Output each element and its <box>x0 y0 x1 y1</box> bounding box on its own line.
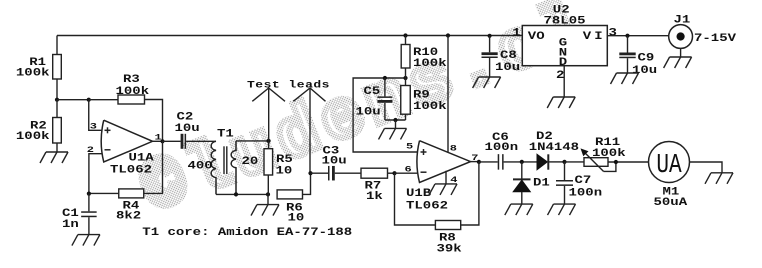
wire R10 top <box>405 36 407 45</box>
svg-text:R9: R9 <box>413 89 430 101</box>
wire R9 bottom <box>405 114 407 120</box>
svg-text:39k: 39k <box>437 243 463 255</box>
wire U2 output rail <box>607 35 669 37</box>
svg-text:U2: U2 <box>553 4 570 16</box>
svg-text:10: 10 <box>276 165 293 177</box>
node U1B pin8 tap <box>446 33 450 37</box>
resistor R2 <box>53 118 62 144</box>
ground J1 <box>664 57 692 68</box>
wire pin2 node to R4 <box>89 192 119 194</box>
diode D1 <box>521 162 523 179</box>
resistor R10 <box>401 45 410 69</box>
svg-text:2: 2 <box>87 145 94 155</box>
svg-text:Test leads: Test leads <box>247 79 330 91</box>
capacitor C6 <box>479 161 498 163</box>
transformer T1 primary <box>211 141 216 194</box>
wire U1A output <box>153 140 163 142</box>
capacitor C9 <box>627 36 629 53</box>
ground C5/R9 <box>395 120 397 128</box>
svg-text:100n: 100n <box>569 187 603 199</box>
wire node A to node B <box>57 99 89 101</box>
svg-text:100k: 100k <box>592 147 626 159</box>
svg-text:C2: C2 <box>177 111 194 123</box>
svg-text:3: 3 <box>90 122 97 132</box>
wire R7 right <box>388 172 395 174</box>
wire secondary top <box>236 140 269 142</box>
resistor R4 <box>119 189 144 198</box>
wire C5/R9 bottom <box>385 119 406 121</box>
svg-text:100n: 100n <box>485 141 519 153</box>
wire R8 loop <box>395 173 436 225</box>
IC U2 78L05 <box>522 26 607 66</box>
svg-text:2: 2 <box>556 69 564 81</box>
svg-text:1k: 1k <box>366 190 383 202</box>
resistor R7 <box>361 168 388 178</box>
svg-text:1: 1 <box>512 27 520 39</box>
wire C7 node to R11 <box>565 161 585 163</box>
meter M1 <box>649 142 690 183</box>
svg-text:100k: 100k <box>16 67 50 79</box>
svg-text:U1B: U1B <box>406 187 432 199</box>
wire pin6 <box>395 172 419 174</box>
transformer T1 secondary <box>231 141 236 195</box>
wire R11 right <box>608 161 649 163</box>
node test lead left <box>267 139 271 143</box>
capacitor C5 <box>384 78 386 96</box>
svg-text:TL062: TL062 <box>406 200 448 212</box>
wire J1 ground <box>680 48 682 57</box>
test lead right <box>309 88 311 173</box>
svg-text:50uA: 50uA <box>654 196 688 208</box>
svg-text:VO: VO <box>528 30 545 42</box>
wire pin8 <box>447 36 449 153</box>
node B pin3 tap <box>87 98 91 102</box>
diode D2 <box>537 154 547 169</box>
ground C1 <box>72 235 100 246</box>
node U1B output <box>477 160 481 164</box>
node secondary bottom <box>234 192 238 196</box>
wire R5 top <box>268 141 270 149</box>
node D1 tap <box>520 160 524 164</box>
svg-text:1n: 1n <box>62 218 79 230</box>
wire pin5 loop <box>353 78 418 152</box>
resistor R9 <box>401 86 411 115</box>
node C5/R9 ground <box>393 118 397 122</box>
svg-text:10u: 10u <box>632 64 657 76</box>
node U1A output <box>160 139 164 143</box>
ground D1 <box>505 204 533 215</box>
svg-text:VI: VI <box>583 30 606 42</box>
op-amp U1A <box>101 120 152 162</box>
node R11 wiper <box>614 160 618 164</box>
wire R2 bottom <box>56 143 58 152</box>
wire R5 bottom <box>267 175 269 194</box>
resistor R3 <box>118 95 145 104</box>
ground U2 <box>547 97 575 108</box>
wire node B to R3 <box>89 99 118 101</box>
svg-text:10u: 10u <box>322 155 347 167</box>
svg-text:10u: 10u <box>495 62 520 74</box>
wire bottom rail <box>216 193 268 195</box>
wire R3 right <box>145 100 163 142</box>
connector J1 <box>669 25 693 49</box>
svg-text:5: 5 <box>406 142 413 152</box>
node C9 tap <box>625 34 629 38</box>
node R10 tap <box>403 33 407 37</box>
svg-text:1N4148: 1N4148 <box>529 141 579 153</box>
wire top supply rail <box>57 35 522 37</box>
ground C8 <box>473 77 501 88</box>
node A divider <box>55 98 59 102</box>
capacitor C7 <box>564 162 566 180</box>
svg-text:D: D <box>559 57 568 69</box>
svg-text:J1: J1 <box>674 14 691 26</box>
wire R1 top <box>56 36 58 55</box>
node C8 tap <box>488 34 492 38</box>
ground C9 <box>611 73 639 84</box>
svg-text:10u: 10u <box>356 106 381 118</box>
capacitor C8 <box>489 36 491 53</box>
node R5 bottom <box>266 192 270 196</box>
wire R9 top <box>405 78 407 86</box>
capacitor C2 <box>163 140 181 142</box>
wire U2 gnd <box>563 66 565 97</box>
wire pin4 ground <box>445 171 447 184</box>
op-amp U1B <box>417 141 471 183</box>
resistor R8 <box>435 221 460 230</box>
resistor R11 pot <box>584 158 608 167</box>
svg-text:100k: 100k <box>413 57 447 69</box>
resistor R6 <box>277 190 302 199</box>
capacitor C3 <box>311 172 329 174</box>
wire pin3 <box>89 100 103 131</box>
svg-text:400: 400 <box>188 160 213 172</box>
svg-text:T1: T1 <box>217 128 234 140</box>
svg-text:3: 3 <box>609 27 617 39</box>
wire U1B output <box>471 161 479 163</box>
svg-text:UA: UA <box>656 151 682 181</box>
wire R10 bottom <box>405 68 407 78</box>
transformer T1 core <box>223 146 225 174</box>
svg-text:100k: 100k <box>116 85 150 97</box>
node R9/R10 <box>403 76 407 80</box>
svg-text:8: 8 <box>450 144 457 154</box>
wire R6 right <box>303 173 311 194</box>
svg-text:T1 core: Amidon EA-77-188: T1 core: Amidon EA-77-188 <box>142 227 352 239</box>
svg-text:10u: 10u <box>175 122 200 134</box>
svg-text:7-15V: 7-15V <box>694 32 737 44</box>
capacitor C1 <box>88 193 90 211</box>
svg-text:6: 6 <box>405 165 412 175</box>
resistor R5 <box>264 149 273 175</box>
svg-text:TL062: TL062 <box>110 164 152 176</box>
svg-text:C9: C9 <box>638 52 655 64</box>
svg-text:20: 20 <box>242 155 259 167</box>
node C7 tap <box>562 160 566 164</box>
svg-text:8k2: 8k2 <box>116 210 141 222</box>
node R4/C1 <box>87 192 91 196</box>
wire D2 right <box>549 161 565 163</box>
ground R2 <box>40 152 68 163</box>
svg-text:100k: 100k <box>16 130 50 142</box>
svg-text:R5: R5 <box>276 153 293 165</box>
ground U1B pin4 <box>429 184 457 195</box>
svg-text:10: 10 <box>288 212 305 224</box>
ground M1 <box>705 173 733 184</box>
svg-text:C8: C8 <box>500 49 517 61</box>
wire M1 right <box>690 162 723 173</box>
wire R2 top <box>56 100 58 118</box>
ground C7 <box>548 204 576 215</box>
svg-text:R3: R3 <box>123 73 140 85</box>
wire pin2 <box>89 154 103 194</box>
resistor R1 <box>53 55 62 80</box>
node pin6/R8 <box>392 171 396 175</box>
svg-text:78L05: 78L05 <box>544 15 586 27</box>
svg-text:C5: C5 <box>364 85 381 97</box>
test lead left <box>268 88 270 141</box>
svg-text:C7: C7 <box>575 175 592 187</box>
wire R1 bottom <box>56 79 58 100</box>
ground T1 rail <box>267 194 269 204</box>
R11 wiper arrow <box>604 162 616 171</box>
svg-text:100k: 100k <box>413 101 447 113</box>
wire R4 to output node <box>144 141 163 193</box>
node C5 top <box>383 76 387 80</box>
node C3/R6 <box>308 171 312 175</box>
svg-text:U1A: U1A <box>129 152 155 164</box>
svg-text:D1: D1 <box>533 177 550 189</box>
